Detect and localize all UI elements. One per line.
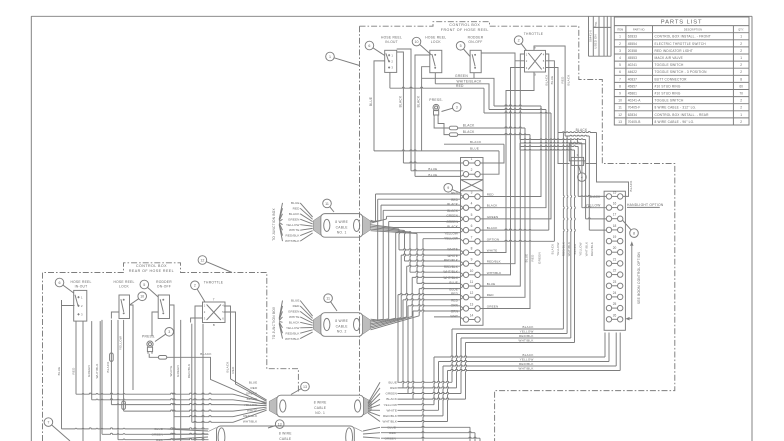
svg-text:HANDLIGHT OPTION: HANDLIGHT OPTION <box>627 203 664 207</box>
svg-text:MACK AIR VALVE: MACK AIR VALVE <box>655 56 683 60</box>
svg-text:#10 STUD RING: #10 STUD RING <box>655 84 681 88</box>
svg-text:BLACK: BLACK <box>487 204 498 208</box>
svg-text:62834: 62834 <box>628 113 637 117</box>
svg-text:HOSE REEL: HOSE REEL <box>70 280 91 284</box>
svg-text:10: 10 <box>140 295 144 299</box>
svg-text:8 WIRE CABLE - 312" LG.: 8 WIRE CABLE - 312" LG. <box>655 106 697 110</box>
wire: S1r pin to blue <box>62 300 75 306</box>
svg-text:ON-OFF: ON-OFF <box>157 285 171 289</box>
svg-text:24: 24 <box>613 291 617 295</box>
wire: valve pin 3 up <box>576 138 578 144</box>
svg-text:RED INDICATOR LIGHT: RED INDICATOR LIGHT <box>655 49 694 53</box>
wire RED rear cable fan to upper harness <box>398 387 457 388</box>
wire BLACK cable1 to terminal 6 <box>371 225 394 228</box>
svg-text:GREEN: GREEN <box>446 220 458 224</box>
electric throttle switch S4 THROTTLE (item 2) <box>525 50 546 72</box>
svg-text:NO. 2: NO. 2 <box>337 330 347 334</box>
svg-text:23: 23 <box>613 280 617 284</box>
svg-text:RED/BLK: RED/BLK <box>519 334 534 338</box>
svg-text:13: 13 <box>618 120 622 124</box>
wire: S3 bottom to GREEN bus <box>473 73 475 79</box>
wire vertical x=61.5 rear control box <box>61 300 63 429</box>
svg-text:YELLOW: YELLOW <box>520 330 534 334</box>
boom control terminal strip 15-26 <box>604 191 625 330</box>
svg-text:YELLOW: YELLOW <box>286 223 300 227</box>
terminal 20 of boom strip <box>606 250 611 255</box>
wire RED cable2 to terminal 3 <box>371 318 378 321</box>
svg-text:IN-OUT: IN-OUT <box>75 285 88 289</box>
svg-text:44622: 44622 <box>628 70 637 74</box>
svg-text:LOCK: LOCK <box>431 40 442 44</box>
svg-text:BLACK: BLACK <box>398 95 402 107</box>
wire rear box run 4 to cable no.1 <box>124 410 233 411</box>
svg-text:8 WIRE: 8 WIRE <box>335 319 348 323</box>
svg-text:PARTS LIST: PARTS LIST <box>661 19 703 25</box>
svg-text:PRESS.: PRESS. <box>142 335 156 339</box>
wire: blue to terminal 2 left (upper) <box>397 49 411 171</box>
butt connector (item 7) <box>449 133 457 137</box>
terminal 12 of junction strip <box>463 295 468 300</box>
callout balloon item 6 <box>365 41 374 50</box>
wire: throttle B pin down <box>481 72 535 253</box>
wire vertical x=91.7 rear control box <box>91 321 93 400</box>
svg-text:14: 14 <box>470 314 474 318</box>
wire: S2 lock black down joining blue run <box>422 67 430 151</box>
svg-text:18: 18 <box>613 224 617 228</box>
wire RED/BLK lower harness run <box>443 365 616 366</box>
svg-text:T: T <box>213 298 215 302</box>
svg-text:BLUE: BLUE <box>550 76 554 85</box>
wire vertical x=100.2 rear control box <box>99 321 101 441</box>
svg-text:WHITE: WHITE <box>487 249 497 253</box>
svg-text:BLACK: BLACK <box>463 130 475 134</box>
svg-text:20358: 20358 <box>628 49 637 53</box>
svg-text:4: 4 <box>471 202 473 206</box>
svg-text:8: 8 <box>633 232 635 236</box>
svg-text:1: 1 <box>471 157 473 161</box>
terminal 23 of boom strip <box>606 283 611 288</box>
svg-text:BLUE: BLUE <box>389 380 397 384</box>
callout balloon item 7 <box>44 418 53 427</box>
svg-text:8 WIRE: 8 WIRE <box>335 220 348 224</box>
callout balloon item 10 <box>138 292 147 301</box>
svg-text:THROTTLE: THROTTLE <box>204 281 224 285</box>
svg-text:8: 8 <box>619 84 621 88</box>
svg-text:11: 11 <box>325 202 329 206</box>
callout balloon item 13 <box>275 420 284 429</box>
wire: S1 pin3 to RED bus <box>389 72 391 88</box>
svg-text:WHITE: WHITE <box>447 254 458 258</box>
svg-text:YELLOW: YELLOW <box>286 326 300 330</box>
svg-text:4: 4 <box>619 56 621 60</box>
svg-text:8: 8 <box>471 247 473 251</box>
svg-text:PART NO.: PART NO. <box>633 29 646 32</box>
svg-text:BLUE: BLUE <box>291 299 299 303</box>
callout balloon item 9 <box>444 184 453 193</box>
svg-text:GREEN: GREEN <box>288 310 300 314</box>
wire: down into terminal 2 right <box>481 151 500 174</box>
svg-text:BLACK: BLACK <box>544 74 548 85</box>
wire YELLOW rear cable fan to lower harness <box>398 404 435 405</box>
toggle switch S3 RODDER ON-OFF (item 5) <box>470 50 481 72</box>
wire: black to terminal 1 right <box>444 143 504 145</box>
wire vertical x=76.0 rear control box <box>75 321 77 394</box>
svg-text:WHT/BLK: WHT/BLK <box>95 363 99 378</box>
svg-text:THROTTLE: THROTTLE <box>524 32 544 36</box>
svg-text:DESCRIPTION: DESCRIPTION <box>684 29 702 32</box>
callout balloon item 5 <box>456 42 465 51</box>
svg-text:7: 7 <box>47 421 49 425</box>
terminal 25 of boom strip <box>606 305 611 310</box>
butt connector rear vertical (item 7) <box>110 353 114 361</box>
butt connector (item 7) <box>449 126 457 130</box>
svg-text:WHT/BLK: WHT/BLK <box>584 242 588 257</box>
svg-text:#10 STUD RING: #10 STUD RING <box>655 92 681 96</box>
terminal 7 of junction strip <box>463 239 468 244</box>
svg-text:45861: 45861 <box>628 92 637 96</box>
svg-text:WHT/BLK: WHT/BLK <box>285 337 300 341</box>
svg-text:2: 2 <box>740 120 742 124</box>
svg-text:GREEN: GREEN <box>87 365 91 377</box>
wire YELLOW upper harness run <box>457 333 568 335</box>
wire: valve pin 2 <box>558 133 569 164</box>
svg-text:RED: RED <box>456 84 464 88</box>
parts list table <box>614 17 749 125</box>
terminal 14 of junction strip <box>463 317 468 322</box>
electric throttle switch S4r THROTTLE rear (item 2) <box>203 302 226 323</box>
svg-text:GREEN: GREEN <box>487 304 499 308</box>
svg-text:8 WIRE: 8 WIRE <box>314 401 327 405</box>
wire rear box run 6 to cable no.1 <box>192 421 233 422</box>
svg-text:CABLE: CABLE <box>314 406 327 410</box>
svg-text:12: 12 <box>618 113 622 117</box>
terminal 11 of junction strip <box>463 283 468 288</box>
wires: throttle left pins to bundle <box>481 54 525 286</box>
svg-text:70405-B: 70405-B <box>628 120 641 124</box>
svg-text:CONTROL BOX INSTALL. - FRONT: CONTROL BOX INSTALL. - FRONT <box>655 35 711 39</box>
wire rear box run to cable no.2 (1) <box>62 428 209 429</box>
wires: press light to butt connectors <box>434 117 449 128</box>
callout balloon item 3 <box>453 103 462 112</box>
svg-text:WHT/BLK: WHT/BLK <box>285 239 300 243</box>
svg-text:2: 2 <box>740 42 742 46</box>
svg-text:BLACK: BLACK <box>567 74 571 85</box>
svg-text:3: 3 <box>168 330 170 334</box>
svg-text:RED: RED <box>487 193 494 197</box>
callout balloon item 13 <box>301 382 310 391</box>
red indicator light PRESS. rear (item 3) <box>147 341 153 347</box>
crossed spare section of terminal strip <box>461 179 484 181</box>
svg-text:WHT/BLK: WHT/BLK <box>567 242 571 257</box>
wire BLACK upper harness run <box>452 328 563 330</box>
svg-text:70: 70 <box>739 92 743 96</box>
svg-text:CABLE: CABLE <box>279 437 292 441</box>
wire BLACK rear cable fan to upper harness <box>398 398 466 399</box>
svg-text:5: 5 <box>460 44 462 48</box>
wire WHT/BLK rear cable fan to lower harness <box>398 420 448 421</box>
rear control box dashed boundary <box>43 263 299 441</box>
svg-text:CABLE: CABLE <box>336 324 349 328</box>
svg-text:7: 7 <box>471 235 473 239</box>
svg-text:BLUE: BLUE <box>487 282 495 286</box>
wire RED/BLK cable1 to terminal 9 <box>371 228 405 231</box>
wire: terminal 14 <box>434 317 463 320</box>
svg-text:PRESS.: PRESS. <box>429 98 443 102</box>
wire vertical x=111.4 rear control box <box>110 320 112 405</box>
butt connector rear vertical 2 (item 7) <box>122 401 126 409</box>
wire: S2 bottom to WHITE/BLACK bus <box>434 73 436 84</box>
svg-text:8: 8 <box>740 77 742 81</box>
svg-text:6: 6 <box>59 281 61 285</box>
svg-text:45857: 45857 <box>628 84 637 88</box>
terminal 3 of junction strip <box>463 194 468 199</box>
svg-text:2: 2 <box>740 49 742 53</box>
svg-text:17: 17 <box>613 213 617 217</box>
wire WHT/BLK cable2 to terminal 10 <box>371 316 413 328</box>
svg-text:TO JUNCTION BOX: TO JUNCTION BOX <box>272 208 276 241</box>
svg-text:RED: RED <box>250 386 257 390</box>
callout balloon item 11 <box>323 199 332 208</box>
wire BLACK lower harness run <box>434 356 605 357</box>
terminal 2 of junction strip <box>463 172 468 177</box>
svg-text:RED/BLK: RED/BLK <box>286 331 301 335</box>
wire rear box run to cable no.2 (2) <box>102 433 209 434</box>
svg-text:WHITE/BLACK: WHITE/BLACK <box>456 80 482 84</box>
terminal 1 of junction strip <box>463 160 468 165</box>
wire WHITE cable2 to terminal 8 <box>371 318 402 326</box>
svg-text:2: 2 <box>740 63 742 67</box>
wire: rear press to butt connector <box>149 354 158 358</box>
svg-text:RED: RED <box>451 299 459 303</box>
terminal 8 of junction strip <box>463 250 468 255</box>
wire GREEN rear cable fan to upper harness <box>398 392 462 393</box>
wires from rear cable to terminals 12-14 <box>397 295 399 383</box>
svg-text:BLACK: BLACK <box>226 361 230 372</box>
svg-text:10: 10 <box>470 269 474 273</box>
svg-text:BLUE: BLUE <box>249 380 257 384</box>
svg-text:2: 2 <box>740 70 742 74</box>
wire YELLOW cable2 to terminal 6 <box>371 318 396 324</box>
svg-text:25: 25 <box>613 302 617 306</box>
terminal 22 of boom strip <box>606 272 611 277</box>
terminal 21 of boom strip <box>606 261 611 266</box>
wire: throttle pin6 <box>546 68 559 133</box>
svg-text:WHITE: WHITE <box>289 228 299 232</box>
svg-text:20: 20 <box>613 246 617 250</box>
terminal 18 of boom strip <box>606 227 611 232</box>
svg-text:12: 12 <box>200 258 204 262</box>
used-on revision block <box>588 16 590 56</box>
svg-text:RED/BLK: RED/BLK <box>487 260 502 264</box>
svg-text:BLUE: BLUE <box>428 173 437 177</box>
svg-text:2: 2 <box>194 284 196 288</box>
svg-text:LOCK: LOCK <box>119 285 130 289</box>
mack air valve (item 4) <box>569 144 585 161</box>
svg-text:CONTROL BOX: CONTROL BOX <box>136 264 167 268</box>
svg-text:BLUE: BLUE <box>470 146 479 150</box>
svg-text:BLUE: BLUE <box>57 367 61 376</box>
svg-text:06441-6: 06441-6 <box>588 30 592 42</box>
wire vertical x=203.0 rear control box <box>202 324 204 441</box>
svg-text:2: 2 <box>740 99 742 103</box>
svg-text:RED/BLK: RED/BLK <box>383 414 398 418</box>
svg-text:RED/BLK: RED/BLK <box>590 242 594 256</box>
rear throttle wires down to cable fan <box>231 372 267 400</box>
wire RED/BLK rear cable fan to lower harness <box>398 415 444 416</box>
wire vertical x=191.8 rear control box <box>191 324 193 423</box>
svg-text:2: 2 <box>471 168 473 172</box>
callout balloon item 5 <box>140 280 149 289</box>
wire RED cable1 to terminal 3 <box>371 220 376 222</box>
svg-text:B: B <box>213 323 215 327</box>
svg-text:13: 13 <box>470 302 474 306</box>
svg-text:USED ON: USED ON <box>594 34 598 48</box>
svg-text:16: 16 <box>613 202 617 206</box>
wire GREEN cable1 to terminal 5 <box>371 219 387 223</box>
svg-text:BLACK: BLACK <box>463 124 475 128</box>
svg-text:YELLOW: YELLOW <box>119 336 123 350</box>
wires: rear throttle pins <box>195 306 203 441</box>
svg-text:RED/BLK: RED/BLK <box>187 364 191 379</box>
svg-text:YELLOW: YELLOW <box>556 242 560 256</box>
butt connector rear (item 7) <box>158 356 166 360</box>
wire: S1 pin2 blue down and right to terminal 2 right <box>374 61 385 151</box>
drawing frame border <box>31 15 752 17</box>
svg-text:TOGGLE SWITCH - 3 POSITION: TOGGLE SWITCH - 3 POSITION <box>655 70 708 74</box>
svg-text:HOSE REEL: HOSE REEL <box>425 36 446 40</box>
svg-text:TO JUNCTION BOX: TO JUNCTION BOX <box>272 306 276 339</box>
callout balloon item 8 <box>630 229 639 238</box>
svg-text:GREEN: GREEN <box>455 74 468 78</box>
terminal 4 of junction strip <box>463 205 468 210</box>
terminal 9 of junction strip <box>463 261 468 266</box>
wires: butt connectors into bundle <box>458 127 525 128</box>
wire: blue to terminal 2 left (lower) <box>415 55 430 176</box>
svg-text:19: 19 <box>613 235 617 239</box>
terminal 5 of junction strip <box>463 216 468 221</box>
toggle switch S2r HOSE REEL LOCK rear (item 10) <box>119 295 130 319</box>
wire WHITE cable1 to terminal 8 <box>371 226 400 229</box>
svg-text:WHITE: WHITE <box>169 366 173 377</box>
terminal 15 of boom strip <box>606 194 611 199</box>
svg-text:REAR OF HOSE REEL: REAR OF HOSE REEL <box>129 269 174 273</box>
8 wire cable no.1 rear (item 13) <box>277 395 364 417</box>
svg-text:RED: RED <box>451 198 459 202</box>
svg-text:BLUE: BLUE <box>369 97 373 106</box>
wire vertical x=123.6 rear control box <box>123 320 125 411</box>
svg-text:2: 2 <box>740 106 742 110</box>
svg-text:6: 6 <box>471 224 473 228</box>
terminal 13 of junction strip <box>463 306 468 311</box>
wire BLACK cable1 to terminal 4 <box>371 221 382 222</box>
svg-text:WHT/BLK: WHT/BLK <box>487 271 502 275</box>
wire WHT/BLK lower harness run <box>448 369 621 370</box>
svg-text:TOGGLE SWITCH: TOGGLE SWITCH <box>655 99 685 103</box>
svg-text:Reg.: Reg. <box>594 21 598 27</box>
svg-text:5: 5 <box>471 213 473 217</box>
terminal 19 of boom strip <box>606 238 611 243</box>
svg-text:RED: RED <box>390 386 397 390</box>
svg-text:70405-F: 70405-F <box>628 106 641 110</box>
toggle switch S1 HOSE REEL IN-OUT (item 6) <box>385 50 397 72</box>
svg-text:CONTROL BOX: CONTROL BOX <box>449 23 480 27</box>
svg-text:ITEM: ITEM <box>617 29 623 32</box>
svg-text:RED: RED <box>487 293 494 297</box>
callout balloon item 3 <box>165 328 174 337</box>
front control box dashed boundary <box>360 22 675 441</box>
svg-text:BLACK: BLACK <box>200 352 212 356</box>
svg-text:QTY.: QTY. <box>738 29 744 32</box>
svg-text:CONTROL BOX INSTALL. - REAR: CONTROL BOX INSTALL. - REAR <box>655 113 710 117</box>
svg-text:6: 6 <box>619 70 621 74</box>
wire YELLOW lower harness run <box>439 360 610 361</box>
terminal 17 of boom strip <box>606 216 611 221</box>
8 wire cable no.2 rear (item 13, partially visible) <box>217 426 355 441</box>
red indicator light PRESS. (item 3) <box>433 104 439 110</box>
wire rear box run 3 to cable no.1 <box>111 404 233 405</box>
callout balloon item 11 <box>324 294 333 303</box>
svg-text:5: 5 <box>143 283 145 287</box>
svg-text:WHT/BLK: WHT/BLK <box>519 367 534 371</box>
svg-text:GREEN: GREEN <box>385 392 397 396</box>
wire RED/BLK upper harness run <box>461 337 571 339</box>
svg-text:BLUE: BLUE <box>524 254 528 263</box>
verticals descending toward boom strip <box>577 147 579 197</box>
svg-text:RODDER: RODDER <box>468 36 484 40</box>
svg-text:BLACK: BLACK <box>289 212 300 216</box>
wire GREEN cable2 to terminal 5 <box>371 319 389 322</box>
wires: harness from bundle to boom strip verticals <box>558 131 597 132</box>
svg-text:YELLOW: YELLOW <box>444 231 458 235</box>
svg-text:ORN: ORN <box>451 310 459 314</box>
svg-text:9: 9 <box>619 92 621 96</box>
svg-text:BLACK: BLACK <box>447 209 459 213</box>
svg-text:1: 1 <box>740 35 742 39</box>
svg-text:60: 60 <box>739 84 743 88</box>
svg-text:ELECTRIC THROTTLE SWITCH: ELECTRIC THROTTLE SWITCH <box>655 42 707 46</box>
svg-text:NO. 1: NO. 1 <box>315 411 325 415</box>
svg-text:3: 3 <box>619 49 621 53</box>
svg-text:WHITE: WHITE <box>289 315 299 319</box>
wire vertical x=174.1 rear control box <box>173 320 175 417</box>
svg-text:1: 1 <box>740 56 742 60</box>
svg-text:GREEN: GREEN <box>537 252 541 264</box>
svg-text:RED: RED <box>293 304 300 308</box>
svg-text:BLACK: BLACK <box>386 397 397 401</box>
svg-text:GREEN: GREEN <box>487 215 499 219</box>
callout balloon item 4 <box>578 173 587 182</box>
callout balloon item 1 <box>326 52 335 61</box>
svg-text:YELLOW: YELLOW <box>384 403 398 407</box>
svg-text:BLUE: BLUE <box>428 167 437 171</box>
wires from bus down to terminals 3,4,5 right <box>481 106 542 197</box>
svg-text:15: 15 <box>613 190 617 194</box>
wire: S1 pin1 black down to terminal 1 left <box>397 52 404 163</box>
svg-text:RED/BLK: RED/BLK <box>562 242 566 256</box>
svg-text:OPTION: OPTION <box>487 237 499 241</box>
svg-text:WHT/BLK: WHT/BLK <box>519 339 534 343</box>
svg-text:BUTT CONNECTOR: BUTT CONNECTOR <box>655 77 688 81</box>
svg-text:62833: 62833 <box>628 35 637 39</box>
wire: throttle T pin <box>534 46 565 136</box>
svg-text:BLACK: BLACK <box>551 244 555 255</box>
terminal 16 of boom strip <box>606 205 611 210</box>
svg-text:NO. 1: NO. 1 <box>337 231 347 235</box>
wire BLUE cable1 to terminal 11 <box>371 231 418 234</box>
svg-text:21: 21 <box>613 257 617 261</box>
wire: black from harness to valve and terminal 15 <box>597 133 629 197</box>
svg-text:26: 26 <box>613 313 617 317</box>
